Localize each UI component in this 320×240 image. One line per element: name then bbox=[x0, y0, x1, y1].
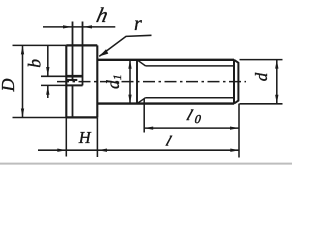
svg-text:d1: d1 bbox=[103, 74, 124, 89]
slot bottom line b lower bbox=[66, 84, 82, 86]
arrow d1 bottom bbox=[128, 95, 131, 104]
extension line head left bottom bbox=[65, 117, 67, 156]
svg-text:d: d bbox=[252, 72, 271, 81]
arrow D bottom bbox=[21, 109, 24, 118]
head outline bbox=[66, 45, 97, 117]
dimension D extension top bbox=[13, 44, 67, 46]
shank top outline bbox=[97, 59, 234, 61]
arrow l left bbox=[98, 149, 107, 152]
svg-text:r: r bbox=[134, 13, 142, 35]
extension line screw tip bbox=[238, 104, 240, 158]
leader r bbox=[99, 35, 151, 56]
arrow D top bbox=[21, 45, 24, 54]
dimension d line bbox=[276, 60, 278, 104]
dimension l0 extension bbox=[143, 99, 145, 133]
thread runout diagonal bottom bbox=[137, 98, 146, 104]
svg-text:0: 0 bbox=[194, 112, 201, 126]
arrow d1 top bbox=[128, 60, 131, 69]
dimension l0 line bbox=[144, 127, 239, 129]
dimension b lower shaft bbox=[47, 86, 49, 98]
arrow d bottom bbox=[275, 95, 278, 104]
chamfer line bbox=[233, 60, 235, 104]
dimension b upper shaft bbox=[47, 45, 49, 75]
svg-text:b: b bbox=[25, 59, 45, 68]
arrow h left bbox=[63, 25, 72, 28]
arrow b down bbox=[46, 67, 49, 76]
slot right line bbox=[82, 22, 84, 86]
slot bottom line b upper bbox=[66, 75, 82, 78]
svg-text:l: l bbox=[164, 134, 174, 149]
thread minor diameter top bbox=[146, 65, 235, 67]
svg-text:l: l bbox=[184, 108, 194, 124]
slot left line bbox=[72, 22, 74, 118]
arrow d top bbox=[275, 60, 278, 69]
shank bottom outline bbox=[97, 102, 234, 104]
dimension b extension top bbox=[41, 75, 66, 77]
arrow l0 left bbox=[144, 126, 153, 129]
arrow r bbox=[99, 49, 108, 56]
dimension d1 line bbox=[129, 60, 131, 104]
thread minor diameter bottom bbox=[146, 97, 235, 99]
dimension d extension top bbox=[240, 59, 283, 61]
slot inner line bbox=[66, 79, 77, 81]
arrow l right bbox=[230, 149, 239, 152]
dimension D line bbox=[22, 45, 24, 117]
thread runout diagonal top bbox=[137, 60, 146, 66]
dimension b extension bottom bbox=[41, 84, 66, 86]
arrow b up bbox=[46, 86, 49, 95]
scan artifact gray line bottom bbox=[0, 163, 292, 165]
svg-text:h: h bbox=[94, 3, 110, 27]
dimension H and l line bbox=[38, 149, 239, 151]
dimension D extension bottom bbox=[13, 117, 67, 119]
thread boundary line bbox=[136, 60, 138, 104]
dimension h line bbox=[43, 26, 115, 28]
arrow H left bbox=[57, 149, 66, 152]
centerline bbox=[57, 81, 246, 83]
extension line head right bottom bbox=[96, 117, 98, 157]
arrow h right bbox=[83, 25, 92, 28]
svg-text:H: H bbox=[78, 128, 92, 147]
dimension d extension bottom bbox=[240, 103, 283, 105]
svg-text:D: D bbox=[0, 79, 18, 93]
end face with chamfer corners bbox=[234, 60, 238, 104]
arrow l0 right bbox=[230, 126, 239, 129]
